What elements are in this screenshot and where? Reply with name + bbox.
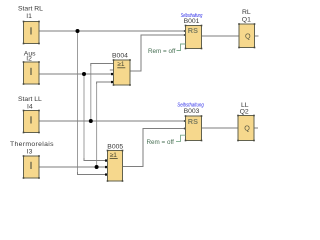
svg-text:I4: I4 xyxy=(27,103,33,110)
svg-text:I1: I1 xyxy=(26,13,32,20)
svg-text:Start RL: Start RL xyxy=(18,5,43,12)
svg-text:Rem = off: Rem = off xyxy=(147,139,175,146)
svg-text:Q2: Q2 xyxy=(240,108,249,115)
svg-text:B003: B003 xyxy=(184,108,200,115)
svg-text:RL: RL xyxy=(242,9,251,16)
svg-text:Selbsthaltung: Selbsthaltung xyxy=(181,13,203,19)
svg-text:Q1: Q1 xyxy=(242,16,251,23)
svg-text:B005: B005 xyxy=(107,144,123,151)
svg-text:Q: Q xyxy=(244,124,250,133)
svg-text:Selbsthaltung: Selbsthaltung xyxy=(177,103,204,109)
svg-text:Rem = off: Rem = off xyxy=(148,48,176,55)
svg-text:B004: B004 xyxy=(112,53,128,60)
svg-text:≥1: ≥1 xyxy=(110,152,118,159)
svg-text:Q: Q xyxy=(245,31,251,40)
svg-text:≥1: ≥1 xyxy=(117,61,125,68)
svg-text:RS: RS xyxy=(188,26,198,35)
svg-text:I3: I3 xyxy=(27,148,33,155)
svg-text:I2: I2 xyxy=(26,56,32,63)
svg-text:Start LL: Start LL xyxy=(18,96,42,103)
svg-text:RS: RS xyxy=(188,117,198,126)
svg-text:Thermorelais: Thermorelais xyxy=(10,141,54,148)
